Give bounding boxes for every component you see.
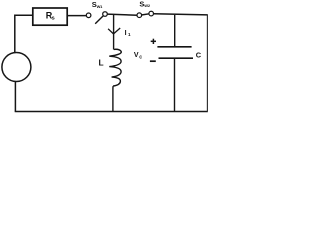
switch SW1 (open) — [86, 12, 107, 24]
svg-text:C: C — [196, 51, 202, 60]
wire capacitor branch top — [174, 15, 176, 47]
label SW1 — [92, 0, 103, 9]
svg-text:c: c — [139, 54, 142, 60]
label SW2 — [139, 0, 150, 8]
capacitor C bottom plate — [159, 57, 194, 59]
svg-text:s: s — [52, 16, 55, 22]
wire SW1 to SW2 (through node of middle branch) — [107, 14, 137, 15]
source (circle) — [2, 53, 31, 82]
wire top-left rail and left drop to source — [15, 15, 33, 53]
svg-text:W1: W1 — [97, 4, 104, 9]
wire inductor bottom to bottom rail — [112, 86, 114, 111]
inductor L coil — [109, 49, 121, 86]
svg-text:1: 1 — [128, 32, 131, 37]
wire bottom rail — [15, 111, 208, 113]
svg-text:V: V — [134, 52, 139, 59]
wire resistor to SW1 — [67, 15, 86, 17]
label Vc — [134, 52, 142, 61]
label - (capacitor polarity) — [150, 60, 156, 62]
capacitor C top plate — [157, 46, 191, 48]
wire right vertical — [206, 15, 208, 112]
resistor Rs — [33, 8, 67, 25]
svg-text:L: L — [99, 57, 104, 67]
label I1 — [125, 30, 131, 37]
label + (capacitor polarity) — [151, 39, 156, 44]
node A: middle branch top wire — [113, 15, 115, 50]
wire capacitor bottom to bottom rail — [174, 58, 176, 111]
wire SW2 to top-right corner — [153, 14, 208, 15]
switch SW2 (closed) — [137, 11, 154, 17]
wire source bottom to bottom rail — [14, 82, 16, 112]
arrow I1 (current direction, down) — [108, 28, 120, 34]
svg-text:I: I — [125, 30, 127, 37]
svg-text:W2: W2 — [144, 3, 151, 8]
